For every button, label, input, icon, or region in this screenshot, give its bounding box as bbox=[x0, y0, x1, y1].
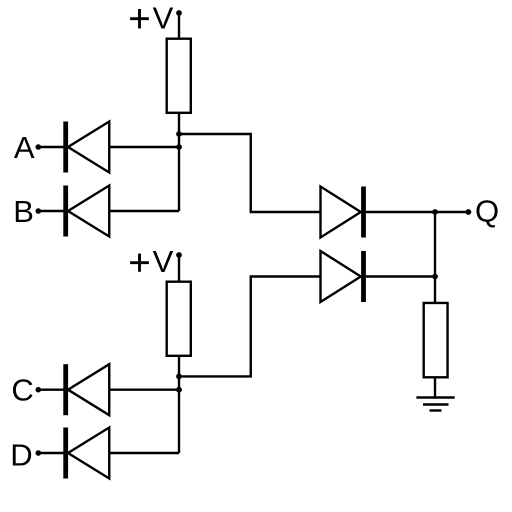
svg-text:C: C bbox=[11, 372, 33, 407]
svg-text:D: D bbox=[10, 438, 32, 473]
svg-text:V: V bbox=[153, 244, 174, 279]
svg-text:A: A bbox=[14, 130, 35, 165]
svg-text:B: B bbox=[13, 194, 34, 229]
svg-text:Q: Q bbox=[475, 193, 499, 228]
svg-text:V: V bbox=[153, 0, 174, 35]
